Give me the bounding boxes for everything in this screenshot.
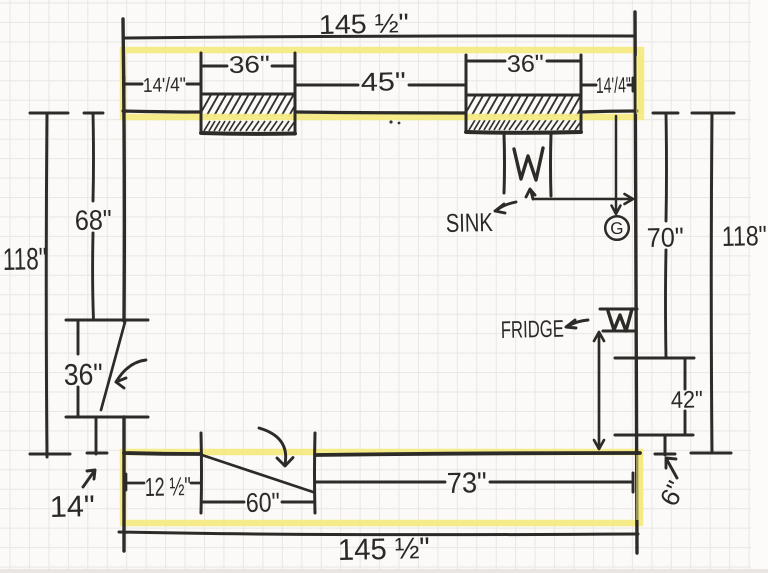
- svg-text:45": 45": [360, 66, 406, 97]
- svg-text:68": 68": [74, 204, 112, 236]
- svg-text:145 ½": 145 ½": [318, 8, 409, 40]
- svg-text:14'/4": 14'/4": [596, 72, 632, 98]
- svg-text:FRIDGE: FRIDGE: [501, 316, 565, 344]
- svg-text:73": 73": [446, 467, 487, 500]
- svg-text:12 ½": 12 ½": [144, 471, 191, 502]
- svg-text:36": 36": [63, 358, 103, 392]
- svg-text:SINK: SINK: [445, 207, 493, 238]
- svg-text:118": 118": [2, 241, 47, 277]
- svg-text:145 ½": 145 ½": [337, 532, 430, 567]
- svg-text:42": 42": [671, 386, 704, 414]
- svg-text:36": 36": [229, 51, 271, 79]
- svg-text:60": 60": [245, 487, 280, 518]
- svg-text:14": 14": [49, 490, 95, 524]
- svg-text:36": 36": [507, 50, 545, 78]
- svg-text:118": 118": [721, 220, 767, 252]
- svg-text:70": 70": [646, 222, 684, 253]
- svg-text:G: G: [610, 219, 624, 238]
- svg-text:14'/4": 14'/4": [143, 74, 186, 97]
